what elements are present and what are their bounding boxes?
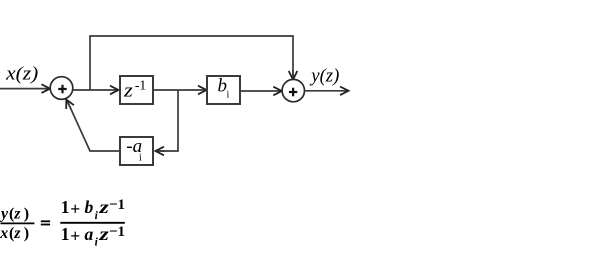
equation lhs fraction bar: [1, 222, 35, 224]
rhs fraction bar: [60, 222, 125, 224]
coefficient box -ai: [120, 137, 153, 165]
summing junction S1: [50, 77, 73, 100]
svg-text:1: 1: [61, 224, 70, 244]
svg-text:y(z): y(z): [309, 66, 339, 87]
svg-text:): ): [24, 225, 29, 242]
svg-text:z: z: [13, 225, 21, 242]
svg-text:y: y: [0, 205, 9, 222]
wire input x(z) into summer S1: [0, 88, 50, 90]
delay box z^-1: [120, 76, 153, 104]
svg-text:+: +: [70, 226, 80, 246]
svg-text:b: b: [85, 197, 94, 217]
svg-text:z: z: [123, 81, 134, 102]
svg-text:i: i: [227, 90, 230, 101]
wire -a box back to summer S1: [68, 102, 121, 152]
svg-text:z: z: [98, 224, 109, 244]
svg-text:a: a: [85, 224, 94, 244]
wire branch up from node at x=90: [90, 36, 293, 90]
svg-text:i: i: [139, 153, 142, 164]
svg-text:): ): [24, 205, 29, 222]
svg-text:1: 1: [61, 197, 70, 217]
equals sign: [41, 220, 50, 222]
coefficient box bi: [207, 76, 240, 104]
svg-text:z: z: [98, 197, 109, 217]
equation: y(z)/x(z) = (1+bi z^-1)/(1+ai z^-1): [0, 197, 125, 249]
svg-text:−1: −1: [109, 224, 125, 240]
svg-text:+: +: [70, 199, 80, 219]
svg-text:x(z): x(z): [5, 64, 38, 85]
svg-text:z: z: [13, 205, 21, 222]
svg-text:x: x: [0, 225, 8, 242]
svg-text:-1: -1: [135, 78, 146, 93]
wire S1 to z-1 box with branch node: [73, 89, 119, 91]
wire branch down from node x=178 to -a box: [156, 90, 179, 151]
svg-text:−1: −1: [109, 197, 125, 213]
wire output y(z): [304, 90, 348, 92]
summing junction S2: [282, 79, 304, 101]
wire b box to summer S2: [240, 90, 282, 92]
wire z-1 to b box with branch node at x=178: [153, 89, 207, 91]
wire arrow into summer S2 from top: [292, 70, 294, 80]
